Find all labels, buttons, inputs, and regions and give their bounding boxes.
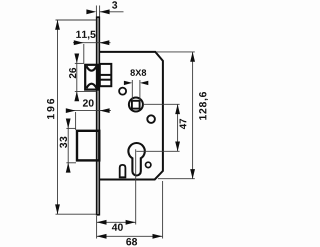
dim 196 extension bottom [56,213,97,215]
label 40 [112,223,123,230]
dim 40 line [97,221,136,223]
dim 26 extension bottom [75,90,96,92]
dim 47 extension top [143,103,179,105]
dim 47 line [177,104,179,151]
case back extension [162,181,164,239]
dim 26 arrow bottom [74,91,79,101]
dim 8x8 arrow left [124,81,132,85]
screw hole upper [119,88,126,95]
dim 68 arrow right [153,234,163,239]
dim 68 line [97,235,163,237]
dim 196 line [57,20,59,214]
dim 3 leader right [100,11,124,13]
dim 128,6 arrow bottom [190,169,195,179]
dim 68 arrow left [97,234,107,239]
small hole right of cylinder [146,162,151,167]
thin lines [56,6,195,239]
dim 20 extension deadbolt front [75,112,77,130]
label 11,5 [76,31,95,40]
dim 11,5 line [73,42,111,44]
dim 8x8 extension left [131,80,133,101]
faceplate bottom extension [96,216,98,239]
dim 3 arrow left [86,9,96,14]
dim 33 extension bottom [66,162,76,164]
dim 128,6 extension top [156,51,195,53]
follower square 8x8 [132,101,140,109]
faceplate [97,17,100,216]
dim 20 arrow right [100,108,110,113]
dim 11,5 arrow right [100,40,110,45]
dim 47 extension bottom [136,150,179,152]
label 33 [60,137,67,148]
dim 33 extension top [66,127,76,129]
dim 3 arrow right [100,9,110,14]
dim 47 arrow bottom [175,142,180,152]
dim 8x8 extension right [139,80,141,101]
dim 196 arrow top [55,20,60,30]
dim 128,6 line [192,52,194,179]
lock case outline [100,52,163,180]
dim 196 extension top [56,19,97,21]
dim 20 arrow left [66,108,76,113]
dim 3 extension lines [95,6,97,17]
dim 8x8 arrow right [140,81,148,85]
dim 26 arrow top [74,54,79,64]
cylinder axis extension [135,149,137,224]
follower circle [129,98,143,112]
label 68 [126,238,137,245]
label 20 [83,99,94,106]
dim 196 arrow bottom [55,204,60,214]
dim 33 line [67,119,69,172]
label 128,6 [199,92,208,120]
dim 128,6 extension bottom [158,178,195,180]
dim 33 arrow top [66,119,71,129]
dim 26 extension top [75,62,84,64]
arch hole bottom left [120,165,126,177]
dim 26 line [76,55,78,101]
deadbolt [77,131,99,161]
label 26 [69,68,76,78]
label 47 [180,119,187,129]
label 196 [47,99,54,119]
arrows [55,9,195,238]
euro cylinder hole [128,143,144,175]
dim 128,6 arrow top [190,52,195,62]
screw hole middle [147,115,155,123]
dim 40 arrow right [126,220,136,225]
dim 11,5 arrow left [74,40,84,45]
dim 47 arrow top [175,104,180,114]
label 3 [112,1,117,8]
dim 11,5 extension latch front [83,44,85,63]
dim 20 line [66,110,111,112]
dim 33 arrow bottom [66,163,71,173]
latch bolt head [85,65,98,90]
label 8X8 [130,69,146,76]
latch tail box [100,64,112,86]
dim 40 arrow left [97,220,107,225]
